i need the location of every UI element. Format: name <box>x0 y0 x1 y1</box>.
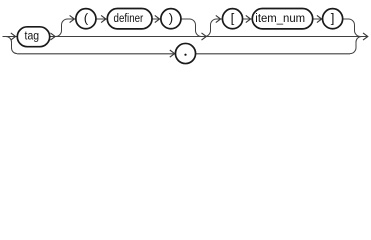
svg-text:): ) <box>169 10 173 25</box>
svg-text:]: ] <box>331 10 335 25</box>
svg-text:definer: definer <box>114 11 144 25</box>
svg-text:[: [ <box>231 10 235 25</box>
svg-text:tag: tag <box>25 29 40 43</box>
svg-text:(: ( <box>84 10 89 25</box>
svg-text:item_num: item_num <box>255 11 305 25</box>
